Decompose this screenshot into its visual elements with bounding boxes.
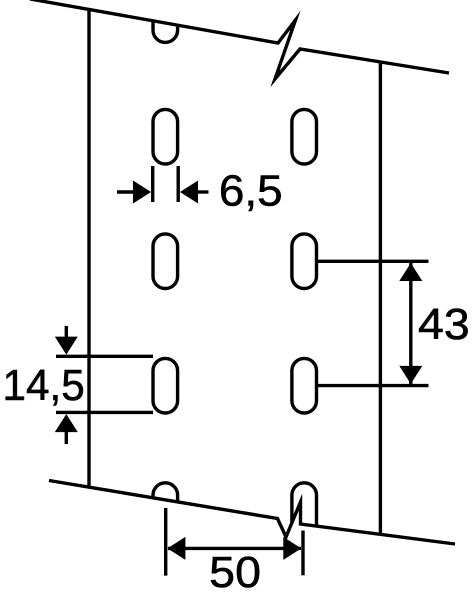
dim 50 left arrowhead bbox=[167, 537, 185, 560]
dim 6,5 extension line left bbox=[151, 166, 154, 202]
slot hole row5 col2 (partial, cut by bottom edge and break) bbox=[292, 483, 317, 538]
dim 14,5 lower arrowhead (points up) bbox=[55, 414, 78, 432]
slot hole row5 col1 (partial, cut by bottom edge) bbox=[153, 483, 178, 538]
dim 50 dimension line bbox=[168, 547, 301, 550]
dim 6,5 right arrow shaft bbox=[196, 190, 209, 193]
slot hole row2 col2 bbox=[292, 109, 317, 164]
dim 43 extension line lower bbox=[318, 384, 429, 387]
dim 14,5 extension line upper bbox=[56, 355, 153, 358]
plate right edge bbox=[379, 62, 382, 535]
dim 50 extension line left bbox=[164, 508, 167, 576]
slot hole row3 col2 bbox=[292, 234, 317, 289]
dim 14,5 upper arrowhead (points down) bbox=[55, 337, 78, 355]
plate top edge with break mark bbox=[30, 0, 449, 79]
slot hole row4 col2 bbox=[292, 358, 317, 413]
slot hole row3 col1 bbox=[153, 234, 178, 289]
dim 14,5 extension line lower bbox=[56, 411, 153, 414]
dim 6,5 left arrowhead bbox=[133, 181, 151, 204]
dim 6,5 right arrowhead bbox=[180, 181, 198, 204]
dim 43 lower arrowhead bbox=[399, 366, 422, 384]
svg-text:14,5: 14,5 bbox=[3, 361, 85, 410]
dim 50 right arrowhead bbox=[283, 537, 301, 560]
dim 50 extension line right bbox=[301, 531, 304, 576]
dim 6,5 left arrow shaft bbox=[117, 190, 135, 193]
dim 6,5 extension line right bbox=[176, 166, 179, 202]
svg-text:6,5: 6,5 bbox=[219, 167, 283, 216]
svg-text:43: 43 bbox=[418, 300, 470, 349]
dim 14,5 upper arrow shaft bbox=[65, 326, 68, 338]
plate bottom edge with break mark bbox=[49, 481, 455, 545]
dim 43 extension line upper bbox=[318, 260, 429, 263]
dim 43 upper arrowhead bbox=[399, 263, 422, 281]
slot hole row2 col1 bbox=[153, 109, 178, 164]
plate left edge bbox=[87, 10, 90, 488]
svg-text:50: 50 bbox=[209, 548, 261, 597]
dim 43 dimension line bbox=[409, 263, 412, 384]
slot hole row4 col1 bbox=[153, 358, 178, 413]
slot hole row1 col1 (partial, cut by top edge) bbox=[153, 0, 178, 42]
dim 14,5 lower arrow shaft bbox=[65, 431, 68, 444]
